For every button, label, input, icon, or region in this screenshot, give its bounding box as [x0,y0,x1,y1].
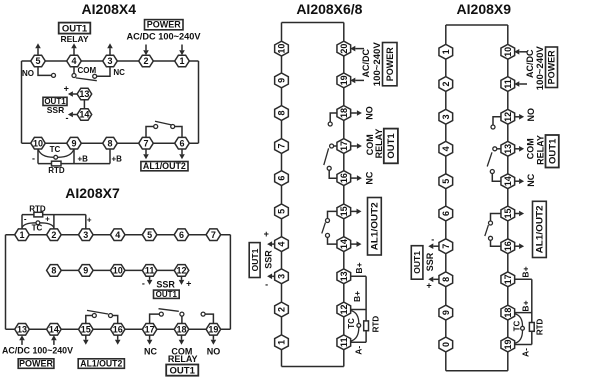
wire top AI208X6/8 [282,22,344,24]
arrow out terminal 14 [514,178,524,184]
contact circle NO X9 [491,125,495,129]
terminal 7 left X9 [439,239,453,254]
wire RTD bus X68 [365,276,367,342]
svg-text:RTD: RTD [535,318,544,335]
svg-text:AL1/OUT2: AL1/OUT2 [370,202,380,250]
svg-text:13: 13 [79,89,89,99]
svg-text:14: 14 [339,239,349,249]
svg-text:14: 14 [503,176,513,186]
switch blade AL1 [155,121,171,125]
svg-text:RELAY: RELAY [60,34,88,44]
svg-text:16: 16 [503,241,513,251]
contact circle NO X68 [328,122,332,126]
terminal 20 [337,41,351,56]
arrow out terminal 5 [35,43,41,55]
wire terminal 19 to RTD bus [514,344,532,346]
svg-text:POWER: POWER [19,358,54,368]
arrow out terminal 14 [350,241,361,247]
wire bottom AI208X9 [446,370,508,372]
svg-text:NO: NO [526,108,536,122]
svg-text:AC/DC: AC/DC [525,49,535,78]
svg-text:COM: COM [78,66,97,75]
wire terminal 9 down [73,149,75,164]
arrow out terminal 12 [514,114,524,120]
svg-text:11: 11 [339,338,349,348]
terminal 12 [337,302,351,317]
svg-text:AC/DC 100~240V: AC/DC 100~240V [127,32,201,42]
svg-text:3: 3 [83,230,88,240]
terminal 2 [275,302,289,317]
label box POWER X68 [383,43,398,86]
contact circle COM X9 [493,147,497,151]
thermocouple TC symbol X68 [351,311,359,342]
terminal 11 [337,335,351,350]
svg-text:B+: B+ [521,300,531,311]
terminal 5 [142,229,157,241]
wire NC contact terminal 16 [329,170,337,178]
svg-text:B+: B+ [354,262,364,273]
contact circle COM X68 [330,144,334,148]
wire terminal 18 to RTD bus [514,312,532,314]
switch blade AL1 X68 [322,223,326,234]
arrow out terminal 14 [68,112,77,118]
svg-text:11: 11 [145,266,155,276]
wire terminal 13 to RTD bus [350,275,366,277]
terminal 1 left X9 [439,44,453,59]
wire switch AL1 terminal 14 X68 [328,237,338,244]
terminal 15 [501,206,515,221]
junction circle TC X68 [357,324,361,328]
terminal 4 [275,237,289,252]
arrow out terminal 11 [147,276,153,285]
junction circle TC X9 [521,326,525,330]
contact circle AL1 left [154,125,158,129]
terminal 4 left X9 [439,141,453,156]
svg-text:AL1/OUT2: AL1/OUT2 [80,358,122,368]
wire left column AI208X6/8 [281,23,283,367]
wire switch AL1 terminal 6 [175,127,182,138]
svg-text:12: 12 [176,266,186,276]
svg-text:NO: NO [207,347,221,357]
svg-text:20: 20 [339,44,349,54]
terminal 14 [47,324,62,336]
svg-text:7: 7 [143,138,148,148]
svg-text:13: 13 [339,271,349,281]
svg-text:8: 8 [107,138,112,148]
svg-text:6: 6 [179,230,184,240]
switch blade AL1 X7 [87,310,108,314]
contact circle AL1 right X7 [109,314,113,318]
svg-text:NC: NC [144,347,157,357]
terminal 2 [139,55,154,67]
svg-text:OUT1: OUT1 [412,251,422,274]
svg-text:5: 5 [35,56,40,66]
terminal 9 [67,137,82,149]
svg-text:NC: NC [113,68,125,77]
switch blade COM X68 [324,148,329,165]
wire terminal 10 down [37,149,39,164]
wire NO contact terminal 5 [38,67,51,76]
terminal 17 [142,324,157,336]
terminal 3 [79,229,94,241]
terminal 13 [337,269,351,284]
wire NO contact terminal 18 [330,113,337,122]
svg-text:A-: A- [520,348,530,357]
wire terminal 11 to RTD bus [350,341,366,343]
terminal 8 [103,137,118,149]
junction circle TC [54,155,58,159]
terminal 4 [67,55,82,67]
terminal 15 [337,204,351,219]
svg-text:14: 14 [79,110,89,120]
svg-text:-: - [265,279,268,289]
svg-text:-: - [66,113,69,123]
label box POWER X7 [18,359,54,369]
wire top row AI208X7 [6,234,231,236]
terminal 1 [175,55,190,67]
terminal 2 [47,229,62,241]
terminal 11 [501,77,515,92]
wire COM contact terminal 4 [73,67,75,74]
terminal 10 [31,137,46,149]
arrow out terminal 6 [179,149,185,160]
svg-text:RELAY: RELAY [168,354,198,364]
svg-text:RTD: RTD [29,204,46,213]
terminal 13 [15,324,30,336]
svg-text:100~240V: 100~240V [535,46,545,90]
wire right column AI208X9 [507,25,509,371]
arrow out terminal 12 [179,276,185,285]
terminal 3 left X9 [439,109,453,124]
svg-text:1: 1 [441,49,451,54]
svg-text:8: 8 [441,277,451,282]
terminal 18 [174,324,189,336]
svg-text:AC/DC 100~240V: AC/DC 100~240V [2,345,73,355]
arrow out terminal 15 [514,211,524,217]
contact circle AL1 top X68 [326,219,330,223]
svg-text:9: 9 [441,310,451,315]
wire left frame AI208X4 [21,61,23,143]
svg-text:RTD: RTD [371,316,380,333]
wire RTD bus X7 [22,214,86,216]
terminal 9 [275,73,289,88]
svg-text:2: 2 [277,307,287,312]
svg-text:NC: NC [526,173,536,186]
terminal 17 [337,139,351,154]
arrow out terminal 18 [179,335,185,345]
terminal 2 left X9 [439,77,453,92]
contact circle AL1 right [171,125,175,129]
terminal 13 [77,88,92,100]
wire switch AL1 terminal 15 [86,316,93,324]
svg-text:+: + [264,229,269,239]
resistor RTD X9 [529,323,534,332]
terminal 10 [275,41,289,56]
terminal 6 [175,137,190,149]
svg-text:13: 13 [503,144,513,154]
svg-text:+: + [87,215,92,224]
terminal 10 [110,265,125,277]
terminal 8 [47,265,62,277]
svg-text:13: 13 [17,325,27,335]
label box OUT1 SSR X68 [249,243,260,278]
svg-text:RTD: RTD [48,166,65,175]
wire top row AI208X4 [22,60,199,62]
terminal 6 [174,229,189,241]
svg-text:SSR: SSR [47,105,64,115]
wire terminal 8 down [109,149,111,164]
terminal 9 left X9 [439,305,453,320]
terminal 13 [501,141,515,156]
wire terminal 12 to RTD bus [350,309,366,311]
svg-text:OUT1: OUT1 [386,133,397,159]
label box AL1/OUT2 X68 [368,198,382,256]
svg-text:6: 6 [179,138,184,148]
svg-text:18: 18 [503,308,513,318]
arrow out terminal 7 [428,243,439,249]
terminal 5 [275,204,289,219]
svg-text:OUT1: OUT1 [170,365,196,376]
svg-text:TC: TC [347,318,356,329]
label box OUT1 SSR X7 [154,290,180,298]
svg-text:AI208X9: AI208X9 [457,1,512,17]
svg-text:6: 6 [441,211,451,216]
contact circle NC X68 [327,166,331,170]
contact circle AL1 left X7 [92,314,96,318]
switch blade COM-NC [76,78,97,81]
svg-text:100~240V: 100~240V [372,42,382,86]
contact circle AL1 bottom X9 [489,236,493,240]
terminal 10 [501,44,515,59]
svg-text:10: 10 [277,44,287,54]
terminal 7 [206,229,221,241]
terminal 1 [275,335,289,350]
arrow power into terminal 20 [350,46,364,52]
svg-text:SSR: SSR [264,250,274,269]
svg-text:1: 1 [277,340,287,345]
terminal 7 [275,139,289,154]
label box OUT1 SSR X9 [411,246,423,280]
contact circle NO X7 [201,312,205,316]
svg-text:4: 4 [71,56,76,66]
svg-text:9: 9 [277,78,287,83]
resistor RTD [52,161,62,166]
thermocouple TC symbol X9 [515,314,523,344]
svg-text:3: 3 [441,114,451,119]
terminal 14 [501,174,515,189]
terminal 14 [77,109,92,121]
svg-text:1: 1 [19,230,24,240]
svg-text:POWER: POWER [547,50,557,85]
svg-text:5: 5 [441,179,451,184]
label box OUT1 relay [59,23,91,34]
terminal 7 [139,137,154,149]
contact circle AL1 bottom X68 [326,233,330,237]
arrow out terminal 3 [267,274,275,280]
svg-text:NC: NC [364,171,374,184]
terminal 18 [337,106,351,121]
arrow power into terminal 14 [51,335,57,345]
svg-text:19: 19 [503,339,513,349]
svg-text:OUT1: OUT1 [547,138,558,164]
svg-text:15: 15 [81,325,91,335]
svg-text:A-: A- [354,346,364,355]
svg-text:5: 5 [277,209,287,214]
resistor RTD X7 [34,212,43,217]
svg-text:+: + [186,279,191,289]
svg-text:NO: NO [22,69,34,78]
svg-text:9: 9 [83,266,88,276]
label box OUT1 SSR [43,97,67,105]
svg-text:18: 18 [176,325,186,335]
svg-text:-: - [431,234,434,244]
svg-text:AL1/OUT2: AL1/OUT2 [535,205,545,253]
wire RTD bus X9 [531,279,533,344]
contact circle NC X7 [180,312,184,316]
wire terminal 2 up [53,215,55,229]
svg-text:2: 2 [51,230,56,240]
svg-text:12: 12 [503,112,513,122]
svg-text:8: 8 [277,110,287,115]
terminal 6 [275,171,289,186]
arrow power into terminal 10 [514,49,527,55]
contact circle COM [72,74,76,78]
label box AL1/OUT2 [141,162,188,171]
terminal 1 [15,229,30,241]
svg-text:TC: TC [50,145,61,154]
wire down to terminal 3 [85,215,87,229]
svg-text:4: 4 [277,242,287,247]
svg-text:OUT1: OUT1 [250,248,260,271]
terminal 6 left X9 [439,206,453,221]
svg-text:AI208X4: AI208X4 [82,1,137,17]
svg-text:+B: +B [112,154,123,163]
wire right frame AI208X7 [229,235,231,330]
terminal 19 [206,324,221,336]
svg-text:+: + [426,281,431,291]
wire right frame AI208X4 [198,61,200,143]
svg-text:POWER: POWER [385,47,395,82]
arrow out terminal 4 [71,43,77,55]
arrow power into terminal 11 [514,81,527,87]
arrow out terminal 13 [514,146,524,152]
contact circle AL1 top X9 [489,221,493,225]
terminal 5 [31,55,46,67]
wire switch AL1 terminal 16 [113,316,118,324]
svg-text:0: 0 [441,342,451,347]
terminal 16 [110,324,125,336]
terminal 14 [337,237,351,252]
wire NO contact terminal 19 [205,314,213,324]
thermocouple TC symbol X7 [22,223,54,228]
svg-text:+B: +B [78,154,89,163]
arrow out terminal 15 [350,209,361,215]
contact circle NO [52,73,56,77]
terminal 3 [103,55,118,67]
arrow out terminal 16 [115,335,121,345]
svg-text:POWER: POWER [147,20,182,30]
wire switch AL1 terminal 15 X9 [491,214,502,222]
wire terminal 1 up [21,215,23,229]
svg-text:-: - [24,215,27,224]
svg-text:16: 16 [339,173,349,183]
svg-text:B+: B+ [352,291,362,302]
wire COM contact terminal 17 [150,314,160,324]
svg-text:OUT1: OUT1 [156,290,178,299]
terminal 12 [174,265,189,277]
svg-text:+: + [45,215,50,224]
label box POWER X9 [546,47,558,88]
wire middle row AI208X7 [47,269,189,271]
svg-text:RELAY: RELAY [536,135,546,165]
svg-text:AC/DC: AC/DC [361,48,371,77]
svg-text:2: 2 [143,56,148,66]
arrow power into terminal 1 [179,45,185,56]
svg-text:NO: NO [364,106,374,120]
wire NO contact terminal 12 [493,117,502,125]
terminal 5 left X9 [439,174,453,189]
arrow out terminal 7 [143,149,149,160]
svg-text:B+: B+ [521,266,531,277]
arrow out terminal 16 [514,243,524,249]
label box AL1/OUT2 X7 [78,359,124,369]
svg-text:COM: COM [526,138,536,159]
arrow out terminal 4 [267,241,275,247]
svg-text:14: 14 [49,325,59,335]
svg-text:SSR: SSR [156,279,175,289]
svg-text:10: 10 [113,266,123,276]
svg-text:17: 17 [145,325,155,335]
svg-text:AI208X6/8: AI208X6/8 [296,1,362,17]
wire top AI208X9 [446,24,508,26]
arrow out terminal 19 [211,335,217,345]
wire COM contact terminal 13 [497,148,502,150]
terminal 4 [110,229,125,241]
terminal 16 [501,239,515,254]
svg-text:17: 17 [503,274,513,284]
wire NC contact terminal 14 [492,173,501,181]
label box AL1/OUT2 X9 [533,201,547,257]
arrow out terminal 8 [428,277,439,283]
wire terminal 17 to RTD bus [514,278,532,280]
svg-text:AL1/OUT2: AL1/OUT2 [143,161,186,171]
svg-text:10: 10 [33,138,43,148]
wire left frame AI208X7 [5,235,7,330]
label box POWER [145,20,184,30]
svg-text:3: 3 [107,56,112,66]
svg-text:10: 10 [503,47,513,57]
arrow power into terminal 13 [19,335,25,345]
switch blade COM X7 [159,309,179,312]
wire NC contact terminal 18 [181,316,183,324]
wire right column AI208X6/8 [343,23,345,367]
arrow out terminal 13 [68,91,77,97]
arrow out terminal 17 [147,335,153,345]
terminal 18 [501,305,515,320]
wire switch AL1 terminal 15 X68 [328,211,338,218]
svg-text:7: 7 [277,143,287,148]
svg-text:SSR: SSR [425,252,435,271]
terminal 8 [275,106,289,121]
arrow out terminal 17 [350,143,362,149]
wire terminal 13 to 14 [83,100,85,109]
svg-text:18: 18 [339,108,349,118]
svg-text:19: 19 [339,75,349,85]
wire left column AI208X9 [445,25,447,371]
thermocouple TC symbol [38,149,74,158]
svg-text:4: 4 [441,146,451,151]
switch blade AL1 X9 [485,225,489,236]
